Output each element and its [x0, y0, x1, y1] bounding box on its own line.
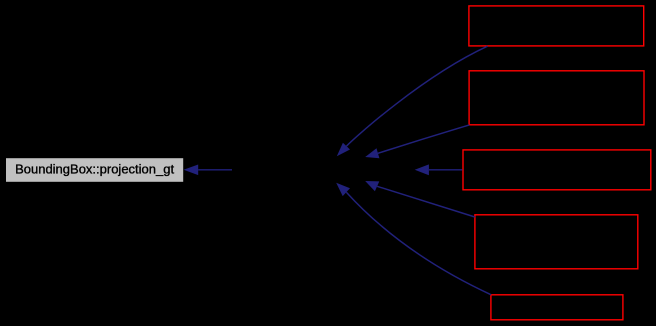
svg-text:BoundingBox::projection_gt: BoundingBox::projection_gt: [15, 161, 174, 176]
